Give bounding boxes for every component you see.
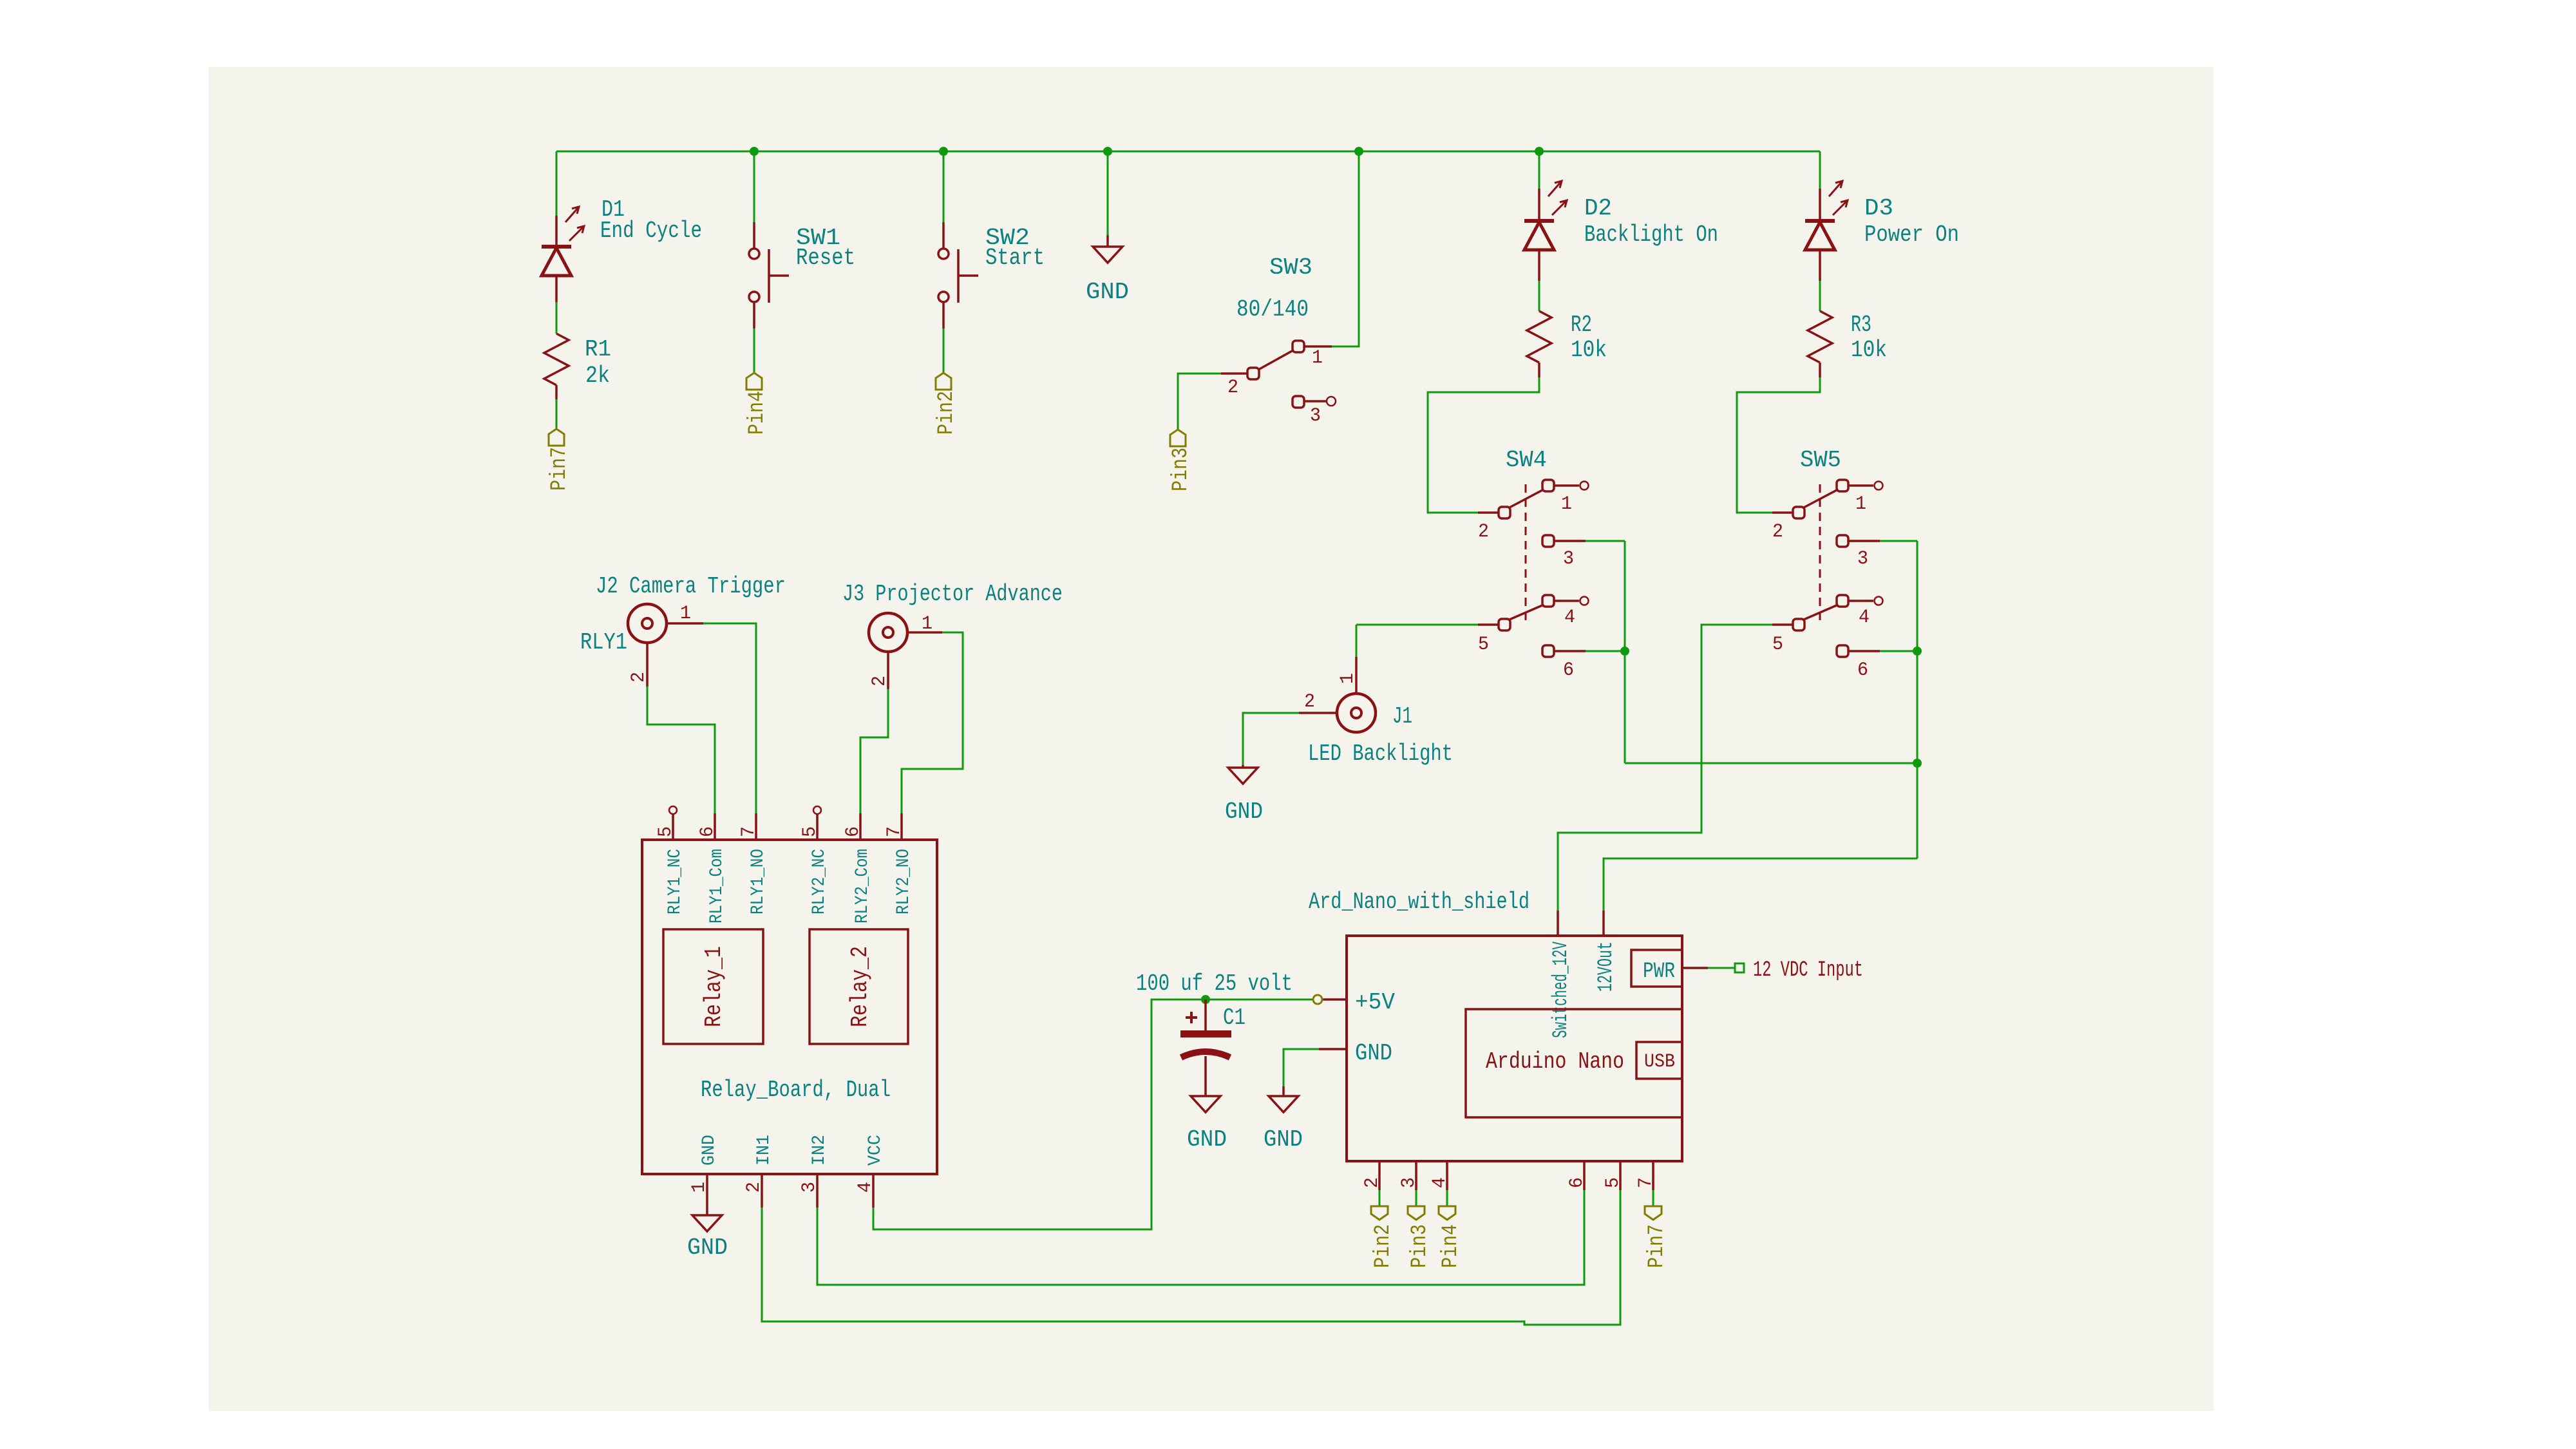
junction columns: [1913, 759, 1922, 768]
relay board pin 5 left: [672, 814, 674, 840]
switch SW1 pin 2: [753, 302, 755, 328]
svg-text:3: 3: [799, 1182, 820, 1193]
global label Pin7: [549, 429, 564, 446]
switch SW4 lever 5-4: [1510, 605, 1544, 620]
svg-text:Start: Start: [985, 245, 1045, 271]
svg-text:Power On: Power On: [1864, 222, 1959, 248]
wire SW5 pin 5 to Switched_12V: [1558, 625, 1772, 911]
switch SW4 lever 2-1: [1510, 489, 1544, 507]
switch SW2: [938, 249, 949, 259]
sheet background: [209, 67, 2213, 1411]
switch SW5 lever 5-4: [1804, 605, 1838, 620]
svg-text:Backlight On: Backlight On: [1584, 222, 1718, 248]
svg-text:3: 3: [1563, 548, 1574, 570]
svg-text:4: 4: [1859, 607, 1870, 629]
svg-text:RLY2_NC: RLY2_NC: [810, 849, 829, 914]
svg-text:SW3: SW3: [1269, 254, 1312, 281]
svg-text:4: 4: [1564, 607, 1575, 629]
relay board pin 2 bottom: [761, 1174, 763, 1207]
svg-text:1: 1: [1312, 347, 1323, 369]
svg-text:SW4: SW4: [1506, 447, 1547, 473]
svg-text:GND: GND: [699, 1135, 719, 1166]
global label Pin4: [746, 373, 762, 390]
switch SW4 pin 1: [1542, 480, 1554, 491]
svg-text:D3: D3: [1864, 195, 1893, 222]
wire arduino to Pin4: [1446, 1190, 1448, 1206]
switch SW4 coupler dashed: [1525, 484, 1527, 622]
wire SW5 column to 12VOut: [1604, 858, 1917, 911]
LED D3 pin 2: [1819, 250, 1821, 281]
switch SW4 pin 2 lead: [1478, 511, 1499, 514]
wire IN1 to Arduino pin 5: [762, 1190, 1620, 1325]
wire D1 to R1: [556, 302, 558, 334]
svg-text:GND: GND: [1355, 1040, 1392, 1066]
LED D2: [1524, 219, 1554, 223]
wire arduino GND to ground: [1283, 1049, 1319, 1086]
switch SW5 pin 6: [1837, 645, 1848, 657]
switch SW5 pin 3: [1837, 535, 1848, 547]
svg-text:5: 5: [655, 826, 677, 837]
wire D3 to R3: [1819, 281, 1821, 311]
svg-text:3: 3: [1310, 405, 1321, 427]
junction at SW1: [750, 147, 759, 156]
wire bus to D3: [1819, 151, 1821, 189]
connector J2 pin 2: [646, 643, 649, 687]
arduino pin 5 bottom: [1619, 1161, 1622, 1190]
svg-text:80/140: 80/140: [1236, 296, 1309, 323]
arduino pin 2 bottom: [1378, 1161, 1381, 1190]
relay board pin 4 bottom: [872, 1174, 875, 1207]
power symbol GND arduino: [1282, 1086, 1285, 1096]
wire SW4 pin 5 to J1: [1356, 624, 1478, 626]
svg-text:1: 1: [1337, 673, 1359, 684]
LED D1 pin 1: [555, 216, 558, 245]
power symbol GND C1: [1191, 1096, 1220, 1112]
wire IN2 to Arduino pin 6: [817, 1190, 1584, 1285]
arduino pin 7 bottom: [1652, 1161, 1654, 1190]
wire SW4 pin 6 to column: [1586, 650, 1625, 652]
svg-text:Pin4: Pin4: [1439, 1224, 1463, 1268]
svg-text:RLY1_Com: RLY1_Com: [707, 849, 727, 923]
svg-text:USB: USB: [1644, 1051, 1675, 1073]
wire bus to GND: [1107, 151, 1109, 235]
resistor R2 pin 2: [1538, 363, 1540, 377]
svg-text:Pin3: Pin3: [1169, 448, 1193, 491]
wire arduino to Pin3: [1416, 1190, 1417, 1206]
svg-text:PWR: PWR: [1643, 960, 1675, 984]
switch SW2 pin 2: [942, 302, 945, 328]
svg-text:+5V: +5V: [1355, 989, 1395, 1016]
wire R1 to Pin7: [556, 399, 558, 429]
wire top power bus: [556, 151, 1820, 153]
svg-text:2: 2: [1478, 521, 1489, 543]
wire bus to SW3 pin 1: [1332, 151, 1359, 346]
svg-text:IN2: IN2: [810, 1135, 829, 1166]
LED D1 pin 2: [555, 276, 558, 302]
switch SW5 pin 5 lead: [1772, 623, 1793, 626]
svg-text:J2 Camera Trigger: J2 Camera Trigger: [596, 573, 786, 600]
relay 1 box: [663, 929, 763, 1044]
svg-text:LED Backlight: LED Backlight: [1308, 741, 1453, 767]
arduino pin 6 bottom: [1583, 1161, 1586, 1190]
svg-text:Arduino Nano: Arduino Nano: [1486, 1048, 1624, 1075]
svg-text:12 VDC Input: 12 VDC Input: [1753, 958, 1863, 983]
svg-text:7: 7: [738, 826, 760, 837]
wire SW4 pin 3 to column: [1586, 540, 1625, 542]
wire bus to SW2: [943, 151, 945, 222]
wire SW5 pin 3 to column: [1880, 540, 1917, 542]
capacitor C1 pin 1: [1204, 999, 1207, 1030]
resistor R1: [544, 334, 569, 385]
global label Pin4: [1439, 1206, 1455, 1220]
wire SW4 column to SW5 column: [1625, 762, 1917, 764]
wire D2 to R2: [1539, 281, 1540, 311]
power symbol GND relay: [706, 1207, 708, 1215]
switch SW4 pin 2: [1499, 507, 1510, 518]
wire VCC to +5V: [873, 999, 1314, 1229]
wire J2 pin 2 to relay pin 6: [647, 687, 715, 813]
switch SW5 pin 2: [1793, 507, 1804, 518]
wire SW5 pin 6 to column: [1880, 650, 1917, 652]
switch SW3 pin 2: [1247, 368, 1259, 379]
svg-text:GND: GND: [1086, 279, 1129, 305]
arduino pin PWR: [1682, 967, 1708, 969]
svg-text:1: 1: [1561, 493, 1572, 515]
connector J2: [628, 604, 667, 643]
svg-text:Pin7: Pin7: [547, 447, 572, 491]
connector J3 pin 2: [887, 652, 889, 689]
relay board pin 3 bottom: [816, 1174, 819, 1207]
svg-text:GND: GND: [1264, 1126, 1303, 1153]
wire J3 pin 2 to relay pin 6b: [860, 689, 888, 813]
svg-text:12VOut: 12VOut: [1594, 942, 1618, 992]
junction SW5 pin 6: [1913, 647, 1922, 656]
power symbol GND top: [1106, 235, 1109, 247]
svg-text:Ard_Nano_with_shield: Ard_Nano_with_shield: [1309, 889, 1529, 915]
svg-text:2: 2: [1772, 521, 1783, 543]
LED D3: [1805, 219, 1835, 223]
switch SW2 pin 1: [942, 222, 945, 249]
svg-text:SW5: SW5: [1800, 447, 1841, 473]
svg-text:5: 5: [799, 826, 821, 837]
resistor R1 pin 2: [555, 385, 558, 399]
arduino shield outline: [1347, 936, 1682, 1161]
switch SW4 pin 5 lead: [1478, 623, 1499, 626]
arduino pin 12VOut: [1602, 911, 1605, 936]
svg-text:Relay_Board, Dual: Relay_Board, Dual: [701, 1077, 891, 1103]
svg-text:J3 Projector Advance: J3 Projector Advance: [842, 581, 1063, 607]
svg-text:GND: GND: [687, 1235, 728, 1261]
global label Pin3: [1408, 1206, 1425, 1220]
relay board pin 7 right: [900, 813, 903, 840]
svg-text:3: 3: [1857, 548, 1868, 570]
svg-text:1: 1: [1855, 493, 1866, 515]
svg-text:IN1: IN1: [754, 1135, 774, 1166]
junction SW4 pin 6: [1620, 647, 1629, 656]
switch SW4 pin 3: [1542, 535, 1554, 547]
arduino pin GND: [1319, 1048, 1347, 1050]
relay board pin 5 right: [816, 814, 819, 840]
svg-text:J1: J1: [1392, 703, 1412, 730]
junction at SW2: [939, 147, 948, 156]
svg-text:Pin2: Pin2: [1371, 1224, 1396, 1268]
svg-text:3: 3: [1398, 1177, 1420, 1188]
svg-text:6: 6: [1566, 1177, 1588, 1188]
resistor R2: [1527, 311, 1551, 363]
svg-text:2: 2: [628, 672, 650, 683]
wire SW3 pin 2 to Pin3: [1178, 374, 1221, 429]
global label Pin2: [1371, 1206, 1388, 1220]
LED D3 pin 1: [1819, 189, 1821, 220]
svg-text:6: 6: [842, 826, 864, 837]
wire J2 pin 1 to relay pin 7: [703, 623, 756, 813]
svg-text:4: 4: [1429, 1177, 1451, 1188]
svg-text:Pin2: Pin2: [934, 391, 959, 435]
svg-text:Relay_1: Relay_1: [701, 946, 727, 1027]
svg-text:6: 6: [1563, 659, 1574, 681]
connector J3 pin 1: [908, 631, 942, 634]
switch SW5 pin 2 lead: [1772, 511, 1793, 514]
arduino pin 3 bottom: [1415, 1161, 1417, 1190]
svg-text:RLY1_NC: RLY1_NC: [665, 849, 685, 914]
svg-text:7: 7: [884, 826, 905, 837]
resistor R3: [1808, 311, 1832, 363]
capacitor C1: [1180, 1030, 1231, 1037]
PWR box: [1631, 950, 1682, 987]
switch SW3 pin 1: [1304, 345, 1332, 348]
capacitor C1 plus sign: [1186, 1016, 1197, 1019]
arduino nano box: [1466, 1009, 1682, 1117]
connector J1: [1337, 694, 1376, 732]
svg-text:Reset: Reset: [796, 245, 855, 271]
svg-text:1: 1: [680, 603, 691, 625]
svg-text:2: 2: [743, 1182, 765, 1193]
svg-text:GND: GND: [1187, 1126, 1227, 1153]
svg-text:R1: R1: [585, 336, 611, 363]
svg-text:RLY1_NO: RLY1_NO: [748, 849, 768, 914]
svg-text:1: 1: [688, 1182, 710, 1193]
svg-text:2: 2: [1227, 377, 1238, 399]
svg-text:10k: 10k: [1851, 337, 1887, 363]
svg-text:Pin3: Pin3: [1408, 1224, 1432, 1268]
svg-text:2: 2: [1361, 1177, 1383, 1188]
arduino pin +5V: [1323, 998, 1347, 1001]
wire SW2 to Pin2: [943, 328, 945, 373]
junction at D2: [1535, 147, 1544, 156]
svg-text:7: 7: [1635, 1177, 1657, 1188]
junction at GND drop: [1103, 147, 1112, 156]
svg-text:2: 2: [1304, 691, 1315, 713]
capacitor C1 pin 2: [1204, 1056, 1207, 1096]
LED D1: [542, 245, 571, 249]
switch SW1: [749, 249, 759, 259]
wire PWR to 12VDC label: [1708, 967, 1735, 969]
wire J3 pin 1 to relay pin 7b: [902, 632, 963, 813]
junction at SW3: [1354, 147, 1363, 156]
svg-text:100 uf 25 volt: 100 uf 25 volt: [1136, 971, 1293, 997]
wire R3 to SW5 pin 2: [1737, 377, 1820, 513]
svg-text:Relay_2: Relay_2: [847, 946, 873, 1027]
switch SW5 coupler dashed: [1819, 484, 1821, 622]
svg-text:C1: C1: [1223, 1005, 1245, 1031]
relay board pin 1 bottom: [706, 1174, 708, 1207]
svg-text:RLY2_Com: RLY2_Com: [853, 849, 873, 923]
svg-text:D2: D2: [1584, 195, 1612, 222]
switch SW5 pin 4: [1837, 595, 1848, 607]
svg-text:5: 5: [1772, 634, 1783, 656]
junction C1: [1201, 995, 1210, 1004]
svg-text:R3: R3: [1851, 312, 1871, 338]
svg-text:VCC: VCC: [866, 1135, 885, 1166]
relay board pin 7 left: [755, 813, 757, 840]
net label 12 VDC Input: [1735, 963, 1744, 972]
arduino pin Switched_12V: [1557, 911, 1559, 936]
connector J2 pin 1: [667, 622, 703, 625]
connector J1 pin 1: [1355, 657, 1358, 694]
wire R2 to SW4 pin 2: [1428, 377, 1539, 513]
connector J1 pin 2: [1299, 712, 1336, 714]
wire bus to D2: [1539, 151, 1540, 189]
wire bus to SW1: [753, 151, 755, 222]
wire arduino to Pin7: [1653, 1190, 1654, 1206]
svg-text:5: 5: [1478, 634, 1489, 656]
switch SW5 pin 1: [1837, 480, 1848, 491]
power symbol GND J1: [1242, 765, 1244, 768]
switch SW4 pin 5: [1499, 619, 1510, 630]
global label Pin2 top: [936, 373, 951, 390]
wire bus to D1: [556, 151, 558, 216]
relay 2 box: [810, 929, 908, 1044]
svg-text:RLY1: RLY1: [580, 629, 627, 656]
switch SW5 pin 5: [1793, 619, 1804, 630]
connector J3: [869, 613, 907, 652]
svg-text:GND: GND: [1225, 799, 1263, 825]
switch SW4 pin 6: [1542, 645, 1554, 657]
USB box: [1636, 1042, 1682, 1079]
switch SW4 pin 4: [1542, 595, 1554, 607]
global label Pin7 bottom: [1645, 1206, 1662, 1220]
svg-text:2: 2: [869, 676, 891, 687]
svg-text:Switched_12V: Switched_12V: [1549, 941, 1573, 1038]
svg-text:R2: R2: [1571, 312, 1592, 338]
arduino pin 4 bottom: [1446, 1161, 1448, 1190]
svg-text:1: 1: [922, 613, 933, 635]
svg-text:Pin4: Pin4: [745, 391, 770, 435]
wire SW4 column: [1624, 541, 1626, 763]
switch SW3 lever: [1258, 350, 1293, 370]
relay board pin 6 left: [714, 813, 716, 840]
switch SW5 lever 2-1: [1804, 489, 1838, 507]
wire SW5 column: [1917, 541, 1918, 858]
wire J1 pin 2 to GND: [1243, 713, 1299, 765]
relay board outline: [642, 840, 937, 1174]
svg-text:Pin7: Pin7: [1645, 1224, 1669, 1268]
switch SW1 pin 1: [753, 222, 755, 249]
LED D2 pin 1: [1538, 189, 1540, 220]
wire SW1 to Pin4: [753, 328, 755, 373]
svg-text:RLY2_NO: RLY2_NO: [894, 849, 914, 914]
svg-text:2k: 2k: [585, 363, 610, 389]
svg-text:5: 5: [1602, 1177, 1624, 1188]
relay board pin 6 right: [859, 813, 862, 840]
resistor R3 pin 2: [1819, 363, 1821, 377]
wire J1 pin 1 drop: [1356, 625, 1358, 657]
switch SW3 pin 3: [1293, 396, 1304, 408]
svg-text:4: 4: [855, 1182, 876, 1193]
wire arduino to Pin2: [1379, 1190, 1381, 1206]
global label Pin3: [1170, 430, 1186, 446]
svg-text:6: 6: [1857, 659, 1868, 681]
svg-text:6: 6: [697, 826, 719, 837]
LED D2 pin 2: [1538, 250, 1540, 281]
svg-text:End Cycle: End Cycle: [600, 218, 702, 244]
svg-text:10k: 10k: [1571, 337, 1607, 363]
